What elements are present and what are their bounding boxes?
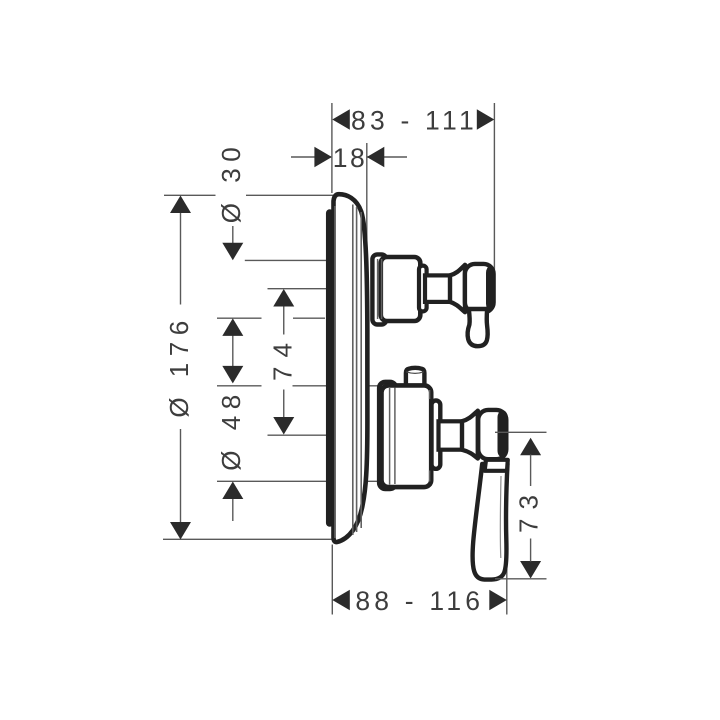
arrow 73 up <box>520 438 541 456</box>
upper cylinder <box>381 257 421 321</box>
shaft dia30 above <box>232 226 234 245</box>
svg-text:73: 73 <box>513 486 543 533</box>
ext line 88-116 right (under lever) <box>506 474 508 615</box>
ext line dia48 top <box>217 385 262 387</box>
lower stem <box>439 421 464 449</box>
arrow 83-111 left <box>332 109 350 129</box>
plate body <box>334 194 368 542</box>
lower button <box>406 368 425 390</box>
lower body <box>382 385 432 487</box>
ext line 74 bottom (lower centerline) <box>268 434 331 436</box>
svg-text:18: 18 <box>333 143 367 173</box>
arrow 74 down <box>273 417 294 435</box>
ext line dia48 bottom <box>217 480 377 482</box>
ext line 73 top (lower centerline right) <box>495 431 547 433</box>
arrow 88-116 left <box>332 590 350 610</box>
lower stem junction line <box>467 425 469 448</box>
svg-text:83 - 111: 83 - 111 <box>351 106 478 136</box>
upper stem <box>425 275 452 302</box>
upper collar flange <box>372 254 386 324</box>
upper flange ring lines <box>377 259 379 319</box>
lower lever inner line <box>499 476 502 558</box>
leader 18 left <box>291 156 331 158</box>
lower flange ring lines <box>389 387 391 485</box>
svg-text:74: 74 <box>267 334 297 381</box>
plate inner edge line <box>334 206 336 538</box>
ext line 74 top (upper centerline) <box>268 288 331 290</box>
shaft dia176 lower <box>180 429 182 523</box>
arrow dia48 down (top) <box>222 366 243 384</box>
arrow 18 right (points left) <box>367 147 385 167</box>
shaft 74 upper <box>283 306 285 335</box>
shaft 73 lower <box>530 539 532 562</box>
plate sleeve (back bar) <box>326 213 334 523</box>
shaft dia30-dia48 shared <box>232 335 234 367</box>
lower grip cap (black) <box>498 410 508 457</box>
leader 18 right <box>367 156 407 158</box>
upper front ring <box>419 266 427 312</box>
ext line plate front face (18 right) <box>366 143 368 247</box>
shaft dia176 upper <box>180 213 182 305</box>
ext line 83-111 right (upper grip tip) <box>493 103 495 272</box>
arrow dia176 up <box>170 196 191 214</box>
arrow dia30 down (top) <box>222 243 243 261</box>
ext line dia30 bottom <box>217 317 262 319</box>
shaft 73 upper <box>530 455 532 487</box>
lower neck ring <box>485 460 508 471</box>
arrow dia48 up (bottom) <box>222 482 243 500</box>
plate face ring 3 <box>360 212 362 528</box>
arrow 18 left (points right) <box>314 147 332 167</box>
shaft dia48 below <box>232 499 234 522</box>
plate face ring 1 <box>352 205 354 536</box>
arrow 73 down <box>520 561 541 579</box>
lower button seam <box>406 372 423 374</box>
ext line wall plane (left of 83-111 / 18) <box>331 103 333 193</box>
arrow dia176 down <box>170 522 191 540</box>
arrow 83-111 right <box>477 109 495 129</box>
lower collar flange <box>379 382 396 489</box>
ext line dia30 top <box>245 259 332 261</box>
upper grip bar <box>465 264 494 313</box>
ext line 73 bottom (lever tip) <box>495 578 547 580</box>
arrow 88-116 right <box>489 590 507 610</box>
svg-text:Ø 176: Ø 176 <box>164 314 194 417</box>
upper stem junction line <box>451 278 453 300</box>
ext line dia176 bottom <box>163 538 338 540</box>
ext line 88-116 left <box>331 545 333 615</box>
lower hub flare <box>462 411 478 459</box>
lower grip bar <box>478 410 506 459</box>
arrow 74 up <box>273 289 294 307</box>
shaft 74 lower <box>283 390 285 418</box>
svg-text:88 - 116: 88 - 116 <box>355 586 484 616</box>
lower lever <box>473 464 508 580</box>
svg-text:Ø 30: Ø 30 <box>216 141 246 223</box>
dim 73 lines (on top) <box>495 432 547 579</box>
upper lever <box>468 309 488 346</box>
upper hub flare <box>450 265 465 312</box>
plate face ring 2 <box>356 207 358 532</box>
lower front ring <box>432 401 441 469</box>
arrow dia30 up (bottom) <box>222 318 243 336</box>
ext line dia176 top <box>164 194 216 196</box>
upper grip cap (black) <box>486 266 495 311</box>
svg-text:Ø 48: Ø 48 <box>216 388 246 470</box>
lower body inner edge lines <box>429 390 431 399</box>
